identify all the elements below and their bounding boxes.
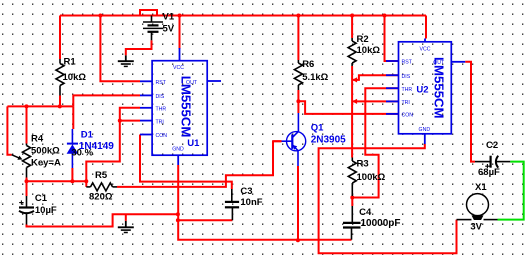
wire U2 DIS jog (352, 75, 398, 80)
junction rail-VCC1 (178, 14, 182, 18)
capacitor C1 (19, 196, 34, 225)
svg-text:DIS: DIS (402, 74, 411, 80)
wire D1 cathode down (72, 106, 74, 129)
junction rail-R2 (350, 14, 354, 18)
U2 pin labels (402, 46, 446, 133)
label C1 value (35, 205, 57, 216)
svg-text:C2: C2 (486, 140, 498, 151)
wire lamp to U2 GND and bottom rail (319, 144, 457, 253)
svg-text:10nF: 10nF (240, 197, 262, 208)
svg-text:R2: R2 (357, 34, 369, 45)
label Q1 (311, 122, 324, 133)
svg-text:LM555CM: LM555CM (432, 57, 447, 119)
wire top power rail (60, 15, 426, 17)
svg-text:RST: RST (156, 80, 167, 86)
capacitor C2 (475, 156, 510, 169)
label C1 (35, 193, 48, 204)
wire R2 top from rail (351, 16, 353, 39)
svg-text:U1: U1 (187, 138, 200, 149)
capacitor C4 (343, 206, 361, 240)
lamp X1 (457, 194, 498, 220)
svg-text:30 %: 30 % (71, 147, 93, 158)
junction R6 bottom (296, 99, 300, 103)
svg-text:10kΩ: 10kΩ (357, 45, 381, 56)
junction C3 bottom (176, 218, 180, 222)
label R1 value (63, 72, 87, 83)
svg-text:R5: R5 (95, 170, 108, 181)
junction pot bottom (25, 179, 29, 183)
label R4 value (31, 146, 60, 157)
label R4 key (31, 158, 61, 169)
wire C1 bottom to ground line (27, 214, 178, 226)
svg-text:THR: THR (156, 107, 167, 113)
wire U1 GND down to bottom rail (178, 165, 351, 240)
svg-text:C1: C1 (35, 193, 48, 204)
wire R5 left connect (85, 181, 87, 187)
label X1 value (470, 221, 482, 232)
svg-text:C3: C3 (240, 186, 252, 197)
wire battery negative to ground (126, 40, 152, 55)
wire R4 bottom lead (26, 178, 28, 182)
label D1 part (79, 141, 114, 152)
svg-text:Q1: Q1 (311, 122, 324, 133)
svg-text:VCC: VCC (420, 46, 431, 52)
svg-text:Key=A: Key=A (31, 158, 61, 169)
wire R1 top from rail (59, 16, 61, 60)
wire U1 CON to C3 top (140, 135, 232, 190)
junction D1 anode (70, 179, 74, 183)
potentiometer R4 (12, 144, 31, 178)
svg-text:R1: R1 (64, 57, 77, 68)
diode D1 (67, 129, 79, 168)
svg-text:100kΩ: 100kΩ (357, 172, 386, 183)
wire U1 RST riser (100, 16, 140, 82)
ground bottom (118, 221, 134, 233)
svg-text:68µF: 68µF (478, 167, 500, 178)
wire R6 top from rail (297, 16, 299, 61)
junction rail-RST2 (383, 14, 387, 18)
svg-text:C4: C4 (359, 207, 372, 218)
label X1 (475, 182, 487, 193)
wire D1 anode down (71, 168, 73, 181)
label R6 value (302, 72, 328, 83)
wire C3 bottom to ground net (178, 219, 233, 221)
label C2 (486, 140, 498, 151)
svg-text:GND: GND (172, 147, 184, 153)
junction U1 TRI tap (118, 119, 122, 123)
transistor Q1 (282, 113, 306, 166)
junction R1 bottom (58, 104, 62, 108)
label U1 (187, 138, 200, 149)
label C3 value (240, 197, 262, 208)
U2 pin stubs (386, 39, 465, 145)
wire Q1 emitter down (297, 166, 299, 240)
label C4 value (361, 218, 401, 229)
svg-text:500kΩ: 500kΩ (31, 146, 60, 157)
resistor R5 (86, 183, 117, 191)
U1 part name (179, 76, 194, 138)
wire R5 right to Q1 base (117, 141, 282, 187)
svg-text:CON: CON (156, 133, 168, 139)
capacitor C3 (225, 189, 239, 220)
label R2 (357, 34, 369, 45)
wire R2 bottom vertical to R3 (351, 66, 353, 158)
junction U2 DIS join arrow (352, 77, 357, 82)
svg-text:X1: X1 (475, 182, 487, 193)
U2 part name (432, 57, 447, 119)
label C3 (240, 186, 252, 197)
wire U2 RST riser (385, 16, 399, 62)
svg-text:5V: 5V (163, 23, 175, 34)
wire U2 TRI to R2 net (352, 100, 398, 102)
wire rail down to U2 VCC (425, 16, 427, 39)
junction rail-R6 (296, 14, 300, 18)
wire U1 TRI stub wire (120, 120, 140, 122)
wire green C2 to lamp (498, 162, 524, 220)
svg-text:V1: V1 (163, 11, 175, 22)
svg-text:R3: R3 (357, 159, 369, 170)
wire C1 top lead (26, 181, 28, 196)
wire U1 VCC riser (179, 16, 181, 50)
label Q1 part (311, 135, 346, 146)
wire R6 bottom (297, 90, 299, 101)
wire U2 THR to R3 bottom loop (352, 88, 398, 197)
junction Q1 emitter at rail (296, 238, 300, 242)
svg-text:2N3905: 2N3905 (311, 135, 346, 146)
wire R4 wiper riser (7, 106, 11, 154)
U1 pin labels (156, 65, 198, 153)
svg-text:TRI: TRI (402, 100, 410, 106)
wire U2 OUT to C2 (465, 62, 475, 162)
svg-text:U2: U2 (416, 85, 428, 96)
svg-text:D1: D1 (81, 130, 94, 141)
wire D1 cathode riser / U1 DIS branch (73, 95, 140, 106)
wire R1 bottom (59, 96, 61, 107)
svg-text:RST: RST (402, 60, 413, 66)
junction R5 left (84, 179, 88, 183)
op-amp timer U1 box (152, 61, 207, 156)
wire R4 top lead (26, 106, 28, 143)
ground V1 (118, 55, 134, 66)
junction R3 bottom (350, 196, 354, 200)
svg-text:10000pF: 10000pF (361, 218, 401, 229)
label R1 (64, 57, 77, 68)
wire R6 to U2 CON (298, 101, 398, 114)
svg-text:DIS: DIS (156, 94, 165, 100)
op-amp timer U2 box (399, 42, 452, 134)
svg-text:3V: 3V (470, 221, 482, 232)
label R3 value (357, 172, 386, 183)
label D1 (81, 130, 94, 141)
U1 pin stubs (140, 48, 221, 165)
label R2 value (357, 45, 381, 56)
svg-text:10µF: 10µF (35, 205, 57, 216)
label R5 value (89, 192, 113, 203)
wire THR/TRI riser (86, 108, 140, 182)
resistor R2 (348, 38, 356, 66)
wire Q1 collector up (297, 101, 299, 113)
svg-text:LM555CM: LM555CM (179, 76, 194, 138)
svg-text:5.1kΩ: 5.1kΩ (302, 72, 328, 83)
junction U2 TRI join arrow (352, 99, 357, 104)
label R4 (31, 134, 44, 145)
label R4 percent (71, 147, 93, 158)
label R5 (95, 170, 108, 181)
resistor R1 (56, 59, 64, 96)
wire ground 2 stem (125, 214, 127, 221)
label R6 (302, 59, 314, 70)
label U2 (416, 85, 428, 96)
label C2 value (478, 167, 500, 178)
svg-text:820Ω: 820Ω (89, 192, 113, 203)
svg-text:GND: GND (419, 127, 431, 133)
node trigger net horizontal (7, 105, 73, 107)
wire R3 bottom to C4 top (351, 196, 353, 206)
svg-text:10kΩ: 10kΩ (63, 72, 87, 83)
label V1 (163, 11, 175, 22)
resistor R3 (348, 158, 356, 197)
svg-text:TRI: TRI (156, 119, 164, 125)
wire battery V1 positive loop (140, 10, 157, 16)
label R3 (357, 159, 369, 170)
junction ground line (176, 212, 180, 216)
svg-text:CON: CON (402, 113, 414, 119)
wire Q1 base (273, 140, 282, 142)
svg-text:R6: R6 (302, 59, 314, 70)
battery V1 (143, 16, 163, 41)
svg-text:R4: R4 (31, 134, 44, 145)
label 5V (163, 23, 175, 34)
svg-text:THR: THR (402, 87, 413, 93)
label C4 (359, 207, 372, 218)
resistor R6 (294, 60, 302, 90)
svg-text:VCC: VCC (173, 65, 184, 71)
node pot bottom net (27, 180, 87, 182)
junction rail-RST1 (98, 14, 102, 18)
junction pot top (25, 104, 29, 108)
